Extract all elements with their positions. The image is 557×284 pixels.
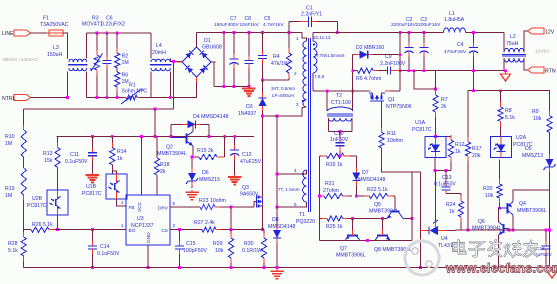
wire R12 top stub [446, 135, 451, 137]
svg-text:U2A: U2A [516, 135, 527, 141]
transformer T1 PQ3220 [271, 35, 345, 225]
wire DC- down to bottom rail [276, 116, 278, 268]
svg-text:NTRL: NTRL [2, 96, 16, 102]
resistor R17 20k [465, 91, 481, 230]
junction at 224.7,136.4 [223, 135, 226, 138]
svg-text:R13: R13 [43, 151, 53, 157]
text RTN [545, 69, 556, 75]
shunt regulator U4 TL431 [420, 220, 454, 249]
wire Q2 collector [192, 124, 194, 131]
junction at 67.5,97.5 [66, 96, 69, 99]
svg-text:MMBT3906L: MMBT3906L [517, 208, 547, 214]
svg-text:1N4937: 1N4937 [238, 111, 256, 117]
wire L2 bottom out to RTN flag [524, 58, 530, 70]
optocoupler U2A PC817C [491, 135, 533, 158]
text 12V [545, 30, 555, 36]
wire U4 anode to row [447, 229, 461, 231]
svg-text:7T,TIW1.5mmx6: 7T,TIW1.5mmx6 [314, 53, 345, 58]
svg-text:10nF1kV: 10nF1kV [240, 22, 260, 28]
svg-text:C16: C16 [536, 246, 545, 252]
junction at 171,136.4 [170, 135, 173, 138]
wire startup drop [154, 109, 156, 136]
wire totem emitter row [319, 240, 412, 242]
wire return rail right [399, 70, 506, 72]
transistor Q2 MMBT3904L [157, 132, 193, 158]
svg-text:1k: 1k [455, 149, 461, 155]
thermistor R1 5ohm NTC [121, 83, 147, 105]
svg-text:4: 4 [294, 168, 297, 173]
svg-text:R29: R29 [213, 241, 223, 247]
svg-text:PC817C: PC817C [82, 191, 102, 197]
capacitor C16 1uF50V [535, 230, 553, 267]
svg-text:PC817C: PC817C [412, 127, 432, 133]
capacitor C10 1nF50V [330, 131, 349, 156]
svg-text:5.1k: 5.1k [8, 248, 18, 254]
svg-text:VCC: VCC [137, 201, 143, 212]
wire T2 sec right down [351, 118, 353, 131]
wire NTRL to L3 [31, 97, 68, 99]
capacitor C2 2200uF16V [391, 17, 417, 71]
svg-text:C13: C13 [442, 175, 452, 181]
junction at 424,70.7 [423, 69, 426, 72]
svg-text:Q4: Q4 [519, 201, 526, 207]
optocoupler U2B PC817C [27, 190, 68, 215]
svg-text:U3: U3 [137, 216, 144, 222]
svg-text:MOV4T1: MOV4T1 [82, 22, 103, 28]
junction at 400.2,32.5 [399, 31, 402, 34]
svg-text:R10: R10 [5, 134, 15, 140]
svg-text:MMBT3906L: MMBT3906L [336, 253, 366, 259]
wire fb bottom row [461, 229, 550, 231]
svg-text:Q1: Q1 [388, 97, 395, 103]
capacitor C7 150uF400V [214, 16, 240, 86]
svg-text:3: 3 [296, 102, 299, 107]
junction at 352.7,91.1 [351, 90, 354, 93]
svg-text:R12: R12 [455, 142, 465, 148]
junction at 435.5,88.9 [434, 88, 437, 91]
wire sec return y91 [313, 90, 369, 92]
capacitor C14 0.1uF50V [88, 230, 120, 268]
junction at 513,230.1 [512, 229, 515, 232]
wire Q2 emitter [192, 146, 194, 157]
junction at 92.4,136.4 [91, 135, 94, 138]
svg-text:1: 1 [296, 36, 299, 41]
junction at 106.8,97.5 [105, 96, 108, 99]
wire R15 row [192, 156, 199, 158]
junction at 231,229.6 [230, 228, 233, 231]
svg-text:R2: R2 [122, 54, 129, 60]
svg-text:C11: C11 [70, 152, 79, 158]
junction at 352.7,70.7 [351, 69, 354, 72]
connector LINE [2, 30, 31, 37]
svg-text:D4 MMSD4148: D4 MMSD4148 [193, 114, 229, 120]
transistor Q4 MMBT3906L [500, 201, 547, 215]
svg-text:2.2nF/Y1: 2.2nF/Y1 [301, 11, 322, 17]
svg-text:470uF16V: 470uF16V [444, 49, 467, 55]
pin number 5 [173, 201, 176, 206]
wire Q5 to riser stub [403, 218, 412, 220]
junction at 414,70.7 [413, 69, 416, 72]
svg-text:CT1:100: CT1:100 [331, 100, 351, 106]
wire startup rail [24, 108, 174, 110]
svg-text:D6: D6 [202, 170, 209, 176]
wire secondary 12V rail [313, 32, 444, 34]
svg-text:F1: F1 [43, 16, 49, 22]
wire R14 to U1B [112, 165, 116, 174]
svg-text:2: 2 [121, 200, 124, 205]
wire R18 top pin [156, 136, 158, 158]
svg-text:DRV: DRV [158, 206, 169, 212]
wire fb left drop [414, 71, 436, 89]
wire VCC pin [140, 136, 142, 195]
junction at 289,32.5 [288, 31, 291, 34]
resistor R23 10ohm [199, 198, 254, 210]
junction at 170.3,97.5 [169, 96, 172, 99]
primary ground under C8 [242, 86, 256, 96]
resistor R19 1M [5, 168, 26, 230]
svg-text:1k: 1k [117, 156, 123, 162]
resistor R12 1k [448, 135, 464, 171]
wire NTC to bridge [140, 77, 197, 98]
junction at 546,267.5 [545, 266, 548, 269]
junction at 179.6,267.5 [178, 266, 181, 269]
resistor R7 2k [433, 71, 448, 137]
junction at 117.2,97.5 [116, 96, 119, 99]
resistor R27 2.4k [194, 220, 262, 232]
svg-text:20mH: 20mH [152, 50, 166, 56]
junction at 319.4,196 [318, 195, 321, 198]
svg-text:R23 10ohm: R23 10ohm [199, 198, 226, 204]
mosfet Q1 NTP75N06 [369, 91, 412, 110]
ground under C12 [228, 175, 242, 185]
common-mode choke L3 150uH [47, 45, 88, 71]
resistor R2 1M [115, 33, 129, 68]
pin number 2 [121, 200, 124, 205]
junction at 209,136.4 [208, 135, 211, 138]
wire C13 to R24 [446, 193, 461, 195]
common-mode choke L4 20mH [150, 43, 171, 71]
svg-text:L3: L3 [53, 45, 59, 51]
svg-text:3: 3 [173, 223, 176, 228]
svg-text:90VAC~240VAC: 90VAC~240VAC [3, 57, 39, 63]
wire Q4 emitter up [513, 190, 550, 202]
svg-text:Q5: Q5 [374, 202, 381, 208]
junction at 473.5,90.7 [472, 89, 475, 92]
svg-text:T2: T2 [336, 93, 342, 99]
svg-text:GND: GND [146, 232, 152, 243]
svg-text:0.1uF50V: 0.1uF50V [434, 182, 456, 188]
wire U1A cathode down [434, 158, 436, 171]
junction at 352.5,218.5 [351, 217, 354, 220]
svg-text:D5: D5 [525, 146, 532, 152]
bridge rectifier D1 GBU608 [177, 38, 222, 82]
svg-text:LINE: LINE [2, 31, 14, 37]
wire rail into L2 [503, 33, 505, 53]
junction at 173.5,61.4 [172, 60, 175, 63]
svg-text:150uF400V: 150uF400V [214, 22, 240, 28]
wire top rail into L4 [150, 33, 152, 59]
junction at 92.5,229.6 [91, 228, 94, 231]
wire return rail [353, 70, 358, 72]
wire vcc rail [57, 135, 254, 137]
svg-text:1k: 1k [449, 209, 455, 215]
svg-text:0.22uF/X2: 0.22uF/X2 [101, 22, 125, 28]
wire D4 left leg [170, 124, 172, 136]
wire D6 top [191, 156, 192, 158]
resistor R29 10k [213, 230, 234, 268]
connector NTRL [2, 95, 31, 102]
junction at 420.4,267.5 [419, 266, 422, 269]
svg-text:20k: 20k [472, 153, 481, 159]
wire L4 right top to bridge [170, 60, 182, 62]
svg-text:L4: L4 [156, 43, 162, 49]
junction at 435,170.6 [434, 169, 437, 172]
svg-text:MMSZ15: MMSZ15 [199, 177, 220, 183]
wire L3 right pins vertical [86, 33, 88, 59]
svg-text:47k/1W: 47k/1W [271, 61, 289, 67]
svg-text:10k: 10k [533, 116, 542, 122]
wire bridge right to DC- rail [211, 62, 214, 86]
svg-text:R7: R7 [441, 97, 448, 103]
svg-text:FB: FB [129, 205, 135, 211]
svg-text:12V: 12V [545, 30, 555, 36]
wire R13 to U2B [57, 167, 59, 190]
wire D2 row left [353, 54, 358, 56]
wire gate drive riser [411, 172, 413, 241]
svg-text:0.1uF50V: 0.1uF50V [65, 159, 88, 165]
svg-text:5: 5 [173, 201, 176, 206]
svg-text:100pF50V: 100pF50V [183, 248, 207, 254]
wire L4 right pin to NTRL rail [169, 71, 171, 97]
junction at 446,170.6 [445, 169, 448, 172]
svg-text:2.2nF100V: 2.2nF100V [380, 61, 406, 67]
wire LINE flag to fuse [31, 32, 48, 34]
transistor Q6 MMBT3904L [472, 219, 509, 235]
svg-text:1.8uH5A: 1.8uH5A [444, 17, 465, 23]
resistor R6 1M [115, 72, 129, 98]
wire Q3 source [262, 206, 264, 230]
optocoupler U1A PC817C [412, 120, 446, 158]
svg-text:Q2: Q2 [166, 145, 173, 151]
wire T2 sec bottom row [328, 131, 351, 133]
wire left column rows [318, 156, 320, 219]
svg-text:10ohm: 10ohm [387, 138, 403, 144]
svg-text:7,8,9: 7,8,9 [314, 74, 325, 79]
wire top rail L3 to L4 [87, 32, 151, 34]
capacitor C5 4.7nF1kV [258, 16, 284, 80]
svg-text:9A650V: 9A650V [240, 192, 259, 198]
svg-text:2k: 2k [441, 104, 447, 110]
wire NTRL rail L3 to NTC [87, 97, 124, 99]
svg-text:1nF50V: 1nF50V [330, 137, 349, 143]
transistor Q7 MMBT3906L [336, 219, 366, 259]
wire T1 pin3 link [263, 108, 303, 117]
text 12V5A [535, 49, 550, 55]
svg-text:R8: R8 [505, 108, 512, 114]
svg-text:MMBT3904L: MMBT3904L [369, 209, 399, 215]
fuse F1 T3A250VAC [40, 16, 69, 36]
resistor R5 4.7ohm [356, 68, 388, 82]
junction at 409,32.5 [408, 31, 411, 34]
wire T2 prim left [326, 91, 328, 111]
junction at 223.8,86.4 [222, 85, 225, 88]
wire feedback top rail [468, 90, 550, 92]
wire U2B to BO row [57, 215, 59, 230]
svg-text:T1: T1 [299, 212, 305, 218]
wire T1 pin1 up [302, 33, 307, 42]
capacitor C1 2.2nF/Y1 [289, 6, 337, 28]
junction at 155,136.4 [154, 135, 157, 138]
diode D4 MMSD4148 [171, 114, 229, 128]
junction at 277,116 [276, 115, 279, 118]
svg-text:R14: R14 [117, 149, 127, 155]
wire R10-R19 join [23, 157, 25, 168]
resistor R4 47k/1W [271, 33, 292, 81]
ic U3 NCP1337 [126, 195, 170, 245]
svg-text:D2 MBR160: D2 MBR160 [356, 45, 384, 51]
svg-text:R27 2.4k: R27 2.4k [194, 220, 215, 226]
junction at 234,86.4 [233, 85, 236, 88]
svg-text:R15 2k: R15 2k [197, 148, 214, 154]
wire U1B to FB [117, 199, 127, 206]
diode D2 MBR160 [353, 45, 401, 59]
svg-text:R24: R24 [446, 202, 456, 208]
inductor L1 1.8uH5A [444, 11, 466, 33]
wire Q6 emitter down [498, 235, 500, 268]
output ground [501, 72, 511, 82]
wire fuse to L3 top-left [63, 33, 68, 59]
svg-text:1M: 1M [5, 141, 12, 147]
junction at 262.5,229.6 [261, 228, 264, 231]
junction at 546,230.1 [545, 229, 548, 232]
svg-text:L2: L2 [510, 34, 516, 40]
wire R22 row into Q5 base [394, 196, 396, 211]
junction at 234,32.5 [233, 31, 236, 34]
wire drain node vertical [262, 116, 264, 196]
wire R11 hook [382, 148, 421, 172]
svg-text:MMSD4148: MMSD4148 [268, 224, 296, 230]
secondary ground symbol [547, 269, 557, 279]
resistor R18 2k [154, 158, 169, 195]
svg-text:15k: 15k [44, 158, 53, 164]
svg-text:MMSD4148: MMSD4148 [358, 177, 386, 183]
capacitor C12 47uF25V [230, 136, 261, 174]
svg-text:10k: 10k [215, 248, 224, 254]
svg-text:D3: D3 [246, 104, 253, 110]
wire R2-R6 join [116, 68, 118, 72]
wire second riser [419, 172, 421, 268]
mosfet Q3 9A650V [240, 185, 263, 208]
junction at 327.2,91.1 [326, 90, 329, 93]
junction at 141.4,136.4 [140, 135, 143, 138]
resistor R30 0.1R/1W [242, 230, 267, 268]
svg-text:R5 4.7ohm: R5 4.7ohm [356, 76, 381, 82]
svg-text:0.1R/1W: 0.1R/1W [242, 248, 262, 254]
svg-text:CS: CS [161, 228, 168, 234]
capacitor C9 2.2nF100V [380, 54, 406, 75]
junction at 411.9,218.5 [411, 217, 414, 220]
wire gate pulldown [230, 207, 232, 230]
wire DC+ rail [197, 32, 303, 34]
junction at 424,32.5 [423, 31, 426, 34]
wire CS row [170, 229, 202, 231]
svg-text:R21: R21 [325, 181, 335, 187]
diode D7 MMSD4148 [352, 156, 385, 196]
transistor Q8 MMBT3904L [374, 219, 412, 254]
junction at 262.5,80 [261, 79, 264, 82]
junction at 106.8,33 [105, 32, 108, 35]
primary ground symbol [270, 269, 284, 279]
svg-text:5: 5 [294, 202, 297, 207]
optocoupler U1B PC817C [82, 174, 127, 199]
pin number 3 [173, 223, 176, 228]
svg-text:Q3: Q3 [242, 185, 249, 191]
capacitor C8 10nF1kV [240, 16, 260, 86]
wire T1 aux pin5 [277, 202, 307, 207]
svg-text:1M: 1M [5, 193, 12, 199]
svg-text:R11: R11 [387, 131, 396, 137]
wire C1 right leg [336, 22, 338, 33]
wire R30 top [263, 229, 265, 231]
wire L2 top out to 12V flag [524, 31, 530, 53]
resistor R11 10ohm [379, 101, 403, 153]
svg-text:R17: R17 [472, 146, 482, 152]
svg-text:Q7: Q7 [340, 246, 347, 252]
junction at 192,157 [191, 156, 194, 159]
wire R9 to D5 [549, 132, 551, 154]
svg-text:1: 1 [121, 223, 124, 228]
svg-text:C8: C8 [245, 16, 252, 22]
resistor R22 5.1k [356, 187, 395, 199]
svg-text:R30: R30 [244, 241, 254, 247]
svg-text:C7: C7 [230, 16, 237, 22]
wire right column down [549, 230, 551, 267]
wire D2 left node vertical [352, 55, 354, 111]
junction at 382.5,218.5 [381, 217, 384, 220]
junction at 92.5,267.5 [91, 266, 94, 269]
svg-text:C4: C4 [457, 42, 464, 48]
svg-text:U1B: U1B [86, 184, 97, 190]
svg-text:GBU608: GBU608 [202, 45, 222, 51]
junction at 264,267.5 [263, 266, 266, 269]
junction at 234.7,136.4 [233, 135, 236, 138]
svg-text:PQ3220: PQ3220 [296, 219, 315, 225]
wire DC- rail [214, 85, 249, 87]
junction at 509,230.1 [508, 229, 511, 232]
resistor R28 5.1k [8, 230, 26, 268]
svg-text:12V5A: 12V5A [535, 49, 550, 55]
junction at 277,207 [276, 206, 279, 209]
wire BO row [24, 229, 31, 231]
svg-text:1M: 1M [122, 60, 129, 66]
svg-text:2200uF16V: 2200uF16V [391, 22, 417, 28]
svg-text:7T, 1.5mm: 7T, 1.5mm [278, 187, 300, 192]
wire Q6 collector up [498, 208, 500, 222]
wire rail L1 to L2 [466, 32, 505, 34]
svg-text:MMBT3904L: MMBT3904L [157, 151, 187, 157]
svg-text:NCP1337: NCP1337 [131, 223, 154, 229]
capacitor C11 0.1uF50V [65, 136, 97, 172]
junction at 435.5,136.4 [434, 135, 437, 138]
junction at 473.5,32.5 [472, 31, 475, 34]
junction at 409,70.7 [408, 69, 411, 72]
wire bottom ground rail [24, 267, 552, 269]
svg-text:MMSZ13: MMSZ13 [522, 153, 543, 159]
wire DRV to R23 [170, 206, 200, 208]
transistor Q5 MMBT3904L [369, 202, 403, 219]
junction at 112.3,136.4 [111, 135, 114, 138]
resistor R13 15k [43, 136, 60, 190]
